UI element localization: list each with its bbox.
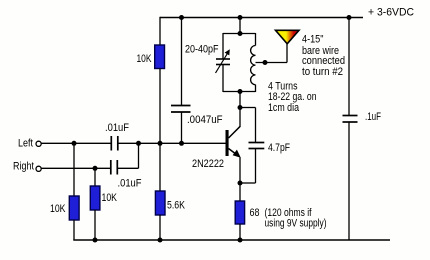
- wire: tank left branch lower: [222, 65, 224, 93]
- capacitor 20-40pF variable: [216, 49, 231, 73]
- svg-text:.01uF: .01uF: [118, 178, 142, 190]
- wire: right 10K to ground rail: [94, 210, 96, 240]
- node: rail / .1uF junction: [347, 15, 352, 20]
- label "bare wire": [302, 45, 339, 57]
- svg-text:20-40pF: 20-40pF: [185, 43, 219, 55]
- label "2N2222": [192, 158, 224, 170]
- node: tank top: [238, 31, 243, 36]
- wire: Right node down to 10K: [94, 168, 96, 186]
- svg-text:Right: Right: [13, 161, 34, 173]
- wire: junction to 4.7pF branch top: [240, 108, 256, 143]
- node: base wire / right-channel join: [136, 141, 141, 146]
- wire: rail down to C .1uF: [348, 18, 350, 116]
- label "to turn #2": [302, 66, 343, 78]
- svg-text:.01uF: .01uF: [105, 122, 129, 134]
- capacitor .1uF: [343, 116, 358, 123]
- label ".01uF" (bottom): [118, 178, 142, 190]
- label "18-22 ga. on": [268, 91, 317, 103]
- label "4.7pF": [268, 142, 290, 154]
- node: base wire / 10K+5.6K branch: [158, 141, 163, 146]
- resistor 10K (right input): [90, 186, 100, 210]
- svg-text:Left: Left: [18, 138, 33, 150]
- wire: C .01uF to transistor base: [118, 142, 226, 144]
- wire: tank bottom to collector: [239, 92, 241, 127]
- label ".1uF": [365, 111, 381, 123]
- svg-text:+ 3-6VDC: + 3-6VDC: [368, 7, 414, 19]
- wire: rail down to C .0047uF: [181, 18, 183, 106]
- node: collector / C4.7 junction: [238, 105, 243, 110]
- node: Left wire / R junction: [72, 141, 77, 146]
- svg-text:10K: 10K: [50, 203, 66, 215]
- node: emitter / C4.7 bottom: [238, 181, 243, 186]
- label "4-15&quot;": [302, 34, 324, 46]
- label "4 Turns": [268, 80, 298, 92]
- wire: rail to R1 top: [159, 17, 161, 46]
- wire: tank bottom bar: [223, 91, 256, 93]
- node: rail / tank junction: [238, 15, 243, 20]
- label "68": [250, 207, 260, 219]
- wire: base node down to 5.6K: [159, 143, 161, 191]
- wire: 5.6K to ground rail: [159, 215, 161, 240]
- svg-text:4.7pF: 4.7pF: [268, 142, 290, 154]
- svg-text:2N2222: 2N2222: [192, 158, 224, 170]
- node: base wire / .0047uF branch: [179, 141, 184, 146]
- capacitor 4.7pF: [249, 143, 265, 149]
- wire: C .1uF to ground rail: [348, 122, 350, 240]
- svg-text:.1uF: .1uF: [365, 111, 381, 123]
- wire: +V top rail: [160, 17, 363, 19]
- wire: ground bottom rail: [73, 239, 390, 241]
- wire: tank left branch upper: [222, 33, 224, 59]
- wire: emitter down to node: [239, 158, 241, 184]
- node: Right wire / R junction: [93, 166, 98, 171]
- wire: emitter node to R emitter: [239, 183, 241, 201]
- svg-text:68: 68: [250, 207, 260, 219]
- wire: 68 ohm to ground rail: [239, 224, 241, 240]
- antenna (colored triangle): [276, 30, 300, 44]
- label "10K" (top): [137, 53, 153, 65]
- wire: Right input to C .01uF: [41, 167, 110, 169]
- label "5.6K": [167, 199, 186, 211]
- label "Right": [13, 161, 34, 173]
- wire: tank top bar: [223, 33, 256, 35]
- svg-text:.0047uF: .0047uF: [187, 114, 223, 126]
- svg-text:5.6K: 5.6K: [167, 199, 186, 211]
- node: coil tap (turn #2): [263, 60, 268, 65]
- capacitor .01uF (right channel): [111, 160, 118, 175]
- node: tank bottom: [238, 89, 243, 94]
- transistor Q1 2N2222: [226, 126, 241, 158]
- label "using 9V supply)": [265, 218, 327, 230]
- label "10K" (middle): [102, 192, 118, 204]
- wire: Left input to C .01uF: [41, 142, 111, 144]
- resistor 10K (left input): [69, 196, 79, 220]
- svg-text:1cm dia: 1cm dia: [268, 102, 300, 114]
- svg-text:10K: 10K: [137, 53, 153, 65]
- resistor 10K (top bias): [155, 45, 165, 69]
- label ".01uF" (top): [105, 122, 129, 134]
- label supply "+ 3-6VDC": [368, 7, 414, 19]
- node: ground / 68 ohm: [238, 238, 243, 243]
- label ".0047uF": [187, 114, 223, 126]
- terminal: Right input: [36, 166, 41, 171]
- wire: Left node down to 10K: [73, 143, 75, 196]
- wire: C .0047uF to base wire: [181, 112, 183, 143]
- inductor L1 4 turns: [251, 33, 256, 92]
- svg-text:10K: 10K: [102, 192, 118, 204]
- capacitor .01uF (left channel): [111, 136, 118, 151]
- label "10K" (left): [50, 203, 66, 215]
- label "20-40pF": [185, 43, 219, 55]
- label "1cm dia": [268, 102, 300, 114]
- terminal: Left input: [36, 141, 41, 146]
- svg-text:using 9V supply): using 9V supply): [265, 218, 327, 230]
- node: rail / C-0047 junction: [179, 15, 184, 20]
- wire: right cap up to base wire: [117, 143, 138, 168]
- label "connected": [302, 55, 345, 67]
- node: ground / right 10K: [93, 238, 98, 243]
- label "Left": [18, 138, 33, 150]
- svg-text:4-15": 4-15": [302, 34, 324, 46]
- wire: R1 bottom to base wire: [159, 69, 161, 144]
- svg-text:to turn #2: to turn #2: [302, 66, 343, 78]
- wire: left 10K to ground rail: [73, 220, 75, 240]
- label "(120 ohms if": [265, 207, 313, 219]
- wire: 4.7pF bottom to emitter node: [240, 149, 256, 184]
- node: ground / 5.6K: [158, 238, 163, 243]
- resistor 5.6K: [155, 191, 165, 215]
- capacitor .0047uF: [171, 106, 191, 113]
- wire: coil tap to antenna: [256, 44, 288, 63]
- wire: rail down to tank top: [239, 18, 241, 34]
- resistor 68 ohm emitter: [235, 201, 244, 224]
